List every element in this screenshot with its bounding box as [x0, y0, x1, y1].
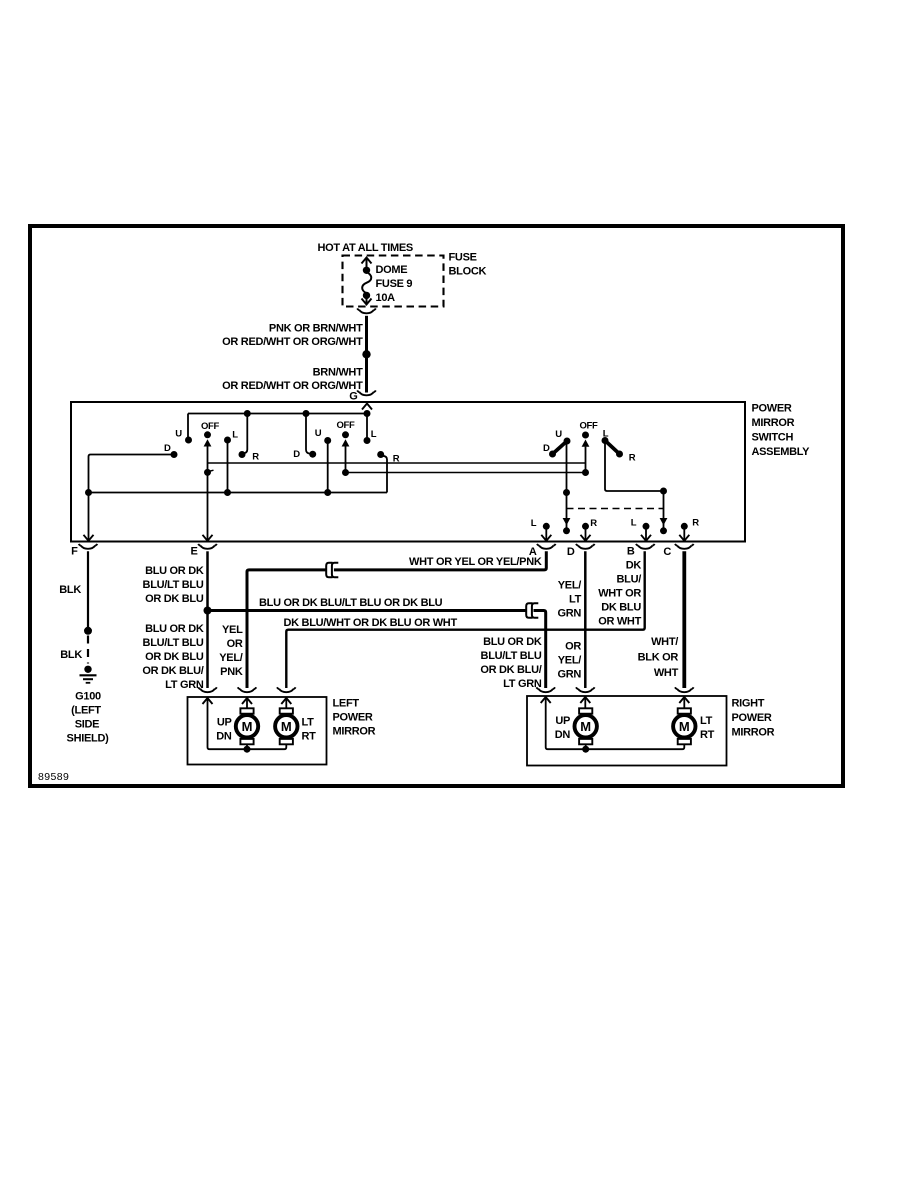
svg-text:OR: OR: [565, 641, 581, 653]
svg-text:RT: RT: [302, 730, 317, 742]
fuse F9 bottom terminal: [363, 292, 370, 299]
svg-text:OR DK BLU/: OR DK BLU/: [142, 665, 203, 677]
selector OFF contact: [582, 432, 589, 439]
wire F BLK dashed: [87, 636, 89, 664]
svg-text:GRN: GRN: [557, 608, 581, 620]
contact R stem to C: [683, 526, 685, 540]
svg-text:MIRROR: MIRROR: [333, 726, 376, 738]
right mirror entry arrow up/dn: [580, 697, 590, 703]
selector lever L-R: [605, 441, 620, 455]
left mirror lt/rt motor stem top: [285, 698, 287, 709]
svg-text:SWITCH: SWITCH: [752, 431, 794, 443]
wire switch1 L to bottom bus: [227, 440, 229, 493]
left mirror entry arrow lt/rt: [281, 698, 291, 704]
right mirror entry cup up/dn: [578, 689, 592, 692]
svg-text:OFF: OFF: [201, 421, 220, 432]
svg-text:OR WHT: OR WHT: [598, 616, 641, 628]
selector D contact: [549, 451, 556, 458]
svg-text:M: M: [281, 719, 292, 734]
switch1 wiper junction: [204, 469, 211, 476]
inline coupler wire2: [526, 603, 532, 618]
left mirror common wire: [208, 698, 287, 749]
svg-text:BLU/: BLU/: [617, 574, 642, 586]
svg-text:L: L: [232, 429, 238, 440]
switch1 U contact: [185, 437, 192, 444]
svg-text:YEL/: YEL/: [219, 652, 242, 664]
svg-text:GRN: GRN: [557, 669, 581, 681]
motor M3 right mirror up/dn: [579, 708, 592, 713]
svg-text:OR RED/WHT OR ORG/WHT: OR RED/WHT OR ORG/WHT: [222, 336, 363, 348]
switch2 L contact: [364, 437, 371, 444]
left mirror entry arrow common: [203, 698, 213, 704]
selector R contact: [616, 451, 623, 458]
connector F arrow: [84, 535, 94, 541]
left mirror entry cup up/dn: [240, 689, 254, 692]
svg-text:BLU/LT BLU: BLU/LT BLU: [143, 579, 204, 591]
wire battery feed upper PNK: [365, 316, 368, 352]
svg-text:M: M: [580, 719, 591, 734]
contact L (conn B): [643, 523, 650, 530]
right mirror up/dn motor stem bottom: [585, 745, 587, 750]
svg-text:BLU/LT BLU: BLU/LT BLU: [143, 637, 204, 649]
junction bottom bus at U2: [324, 489, 331, 496]
svg-text:OR DK BLU: OR DK BLU: [145, 593, 204, 605]
junction on top bus at D2: [303, 410, 310, 417]
svg-text:L: L: [371, 429, 377, 440]
svg-text:OFF: OFF: [336, 420, 355, 431]
outer border frame: [30, 226, 843, 786]
svg-text:F: F: [71, 546, 78, 558]
switch1 wiper wire to connector E: [207, 446, 209, 540]
left mirror entry cup common: [200, 689, 214, 692]
fuse F9 lower wire: [366, 295, 368, 303]
wire2 run right: [208, 609, 527, 612]
wire internal top bus: [188, 413, 367, 415]
svg-text:FUSE 9: FUSE 9: [376, 278, 413, 290]
fuse block dashed box: [343, 256, 444, 307]
svg-text:MIRROR: MIRROR: [752, 417, 795, 429]
svg-text:FUSE: FUSE: [449, 252, 477, 264]
right mirror common junction: [582, 746, 589, 753]
right mirror up/dn motor stem top: [584, 697, 586, 709]
fuse F9 element: [362, 272, 371, 293]
splice junction: [362, 350, 370, 358]
fuse output connector cup: [359, 310, 373, 313]
svg-text:D: D: [293, 449, 300, 460]
svg-text:POWER: POWER: [732, 712, 772, 724]
svg-text:BLU OR DK BLU/LT BLU OR DK BLU: BLU OR DK BLU/LT BLU OR DK BLU: [259, 597, 443, 609]
svg-text:R: R: [393, 454, 400, 465]
selector OFF wire: [585, 447, 587, 473]
selector wiper arrow left: [563, 518, 571, 525]
wire top bus to switch2 L: [366, 414, 368, 441]
selector wiper contact left: [563, 527, 570, 534]
svg-text:POWER: POWER: [752, 402, 792, 414]
motor M2 left mirror lt/rt: [280, 708, 293, 713]
junction on top bus at G/L2: [364, 410, 371, 417]
svg-text:UP: UP: [555, 715, 570, 727]
selector U contact: [564, 438, 571, 445]
junction selector right column: [660, 488, 667, 495]
wire A stem and run left: [334, 551, 546, 570]
svg-text:L: L: [531, 518, 537, 529]
svg-text:10A: 10A: [376, 292, 396, 304]
wire top bus to switch2 D: [306, 414, 310, 454]
right mirror entry cup lt/rt: [677, 689, 691, 692]
svg-text:BLK: BLK: [60, 649, 82, 661]
svg-text:YEL/: YEL/: [558, 655, 581, 667]
svg-text:YEL: YEL: [222, 624, 243, 636]
wire D YEL/LT GRN: [584, 551, 587, 688]
svg-text:D: D: [543, 443, 550, 454]
svg-text:BLK: BLK: [59, 584, 81, 596]
svg-text:BLU OR DK: BLU OR DK: [145, 565, 204, 577]
right mirror entry arrow lt/rt: [679, 697, 689, 703]
node G entry arrow: [362, 404, 372, 410]
power mirror switch assembly box: [71, 402, 745, 542]
svg-text:L: L: [631, 517, 637, 528]
selector wiper stem right: [663, 518, 665, 528]
contact R (conn C): [681, 523, 688, 530]
svg-text:R: R: [629, 452, 636, 463]
right mirror entry arrow common: [541, 697, 551, 703]
svg-text:DN: DN: [216, 730, 232, 742]
motor M1 left mirror up/dn: [240, 708, 253, 713]
svg-text:M: M: [242, 719, 253, 734]
switch1 L contact: [224, 437, 231, 444]
switch1 wiper arrow: [204, 439, 212, 446]
right power mirror box: [527, 696, 727, 766]
contact R (conn D): [582, 523, 589, 530]
svg-text:B: B: [627, 545, 635, 557]
wire mid bus upper: [208, 462, 586, 464]
selector lever D-U: [553, 441, 568, 454]
wire E BLU upper: [206, 551, 209, 610]
connector pin C cup: [677, 546, 691, 549]
svg-text:D: D: [164, 443, 171, 454]
svg-text:SIDE: SIDE: [75, 719, 99, 731]
svg-text:RIGHT: RIGHT: [732, 698, 765, 710]
svg-text:M: M: [679, 719, 690, 734]
fuse F9 up arrow: [362, 258, 372, 264]
svg-text:OFF: OFF: [579, 420, 598, 431]
svg-text:U: U: [175, 429, 182, 440]
selector wiper stem left: [566, 518, 568, 528]
switch1 riser to U contact: [187, 414, 189, 438]
svg-text:LT GRN: LT GRN: [165, 679, 204, 691]
junction on top bus at R1: [244, 410, 251, 417]
svg-text:U: U: [555, 429, 562, 440]
svg-text:G100: G100: [75, 691, 101, 703]
junction selector column: [563, 489, 570, 496]
svg-text:89589: 89589: [38, 771, 69, 783]
left mirror entry arrow up/dn: [242, 698, 252, 704]
svg-text:ASSEMBLY: ASSEMBLY: [752, 446, 811, 458]
wire battery feed lower BRN/WHT: [365, 354, 368, 392]
connector pin B cup: [638, 546, 652, 549]
junction F column bottom bus: [85, 489, 92, 496]
svg-text:LEFT: LEFT: [333, 698, 360, 710]
svg-text:DK: DK: [626, 560, 642, 572]
svg-text:YEL/: YEL/: [558, 580, 581, 592]
svg-text:MIRROR: MIRROR: [732, 727, 775, 739]
svg-text:WHT: WHT: [654, 667, 679, 679]
svg-text:OR RED/WHT OR ORG/WHT: OR RED/WHT OR ORG/WHT: [222, 380, 363, 392]
svg-text:OR DK BLU: OR DK BLU: [145, 651, 204, 663]
svg-text:(LEFT: (LEFT: [71, 705, 101, 717]
right mirror lt/rt motor stem top: [683, 697, 685, 709]
switch1 OFF contact: [204, 431, 211, 438]
inline coupler wire1: [326, 563, 332, 578]
connector pin G cup: [359, 392, 373, 395]
svg-text:BLU OR DK: BLU OR DK: [483, 636, 542, 648]
junction bottom bus at L1: [224, 489, 231, 496]
svg-text:LT: LT: [569, 594, 582, 606]
svg-text:LT: LT: [302, 716, 315, 728]
wire1 left segment down to left mirror: [247, 570, 326, 688]
svg-text:PNK: PNK: [220, 666, 243, 678]
ground splice: [84, 627, 92, 635]
svg-text:BRN/WHT: BRN/WHT: [313, 367, 363, 379]
switch2 wiper arrow: [342, 439, 350, 446]
svg-text:C: C: [663, 546, 671, 558]
switch2 wiper wire: [345, 446, 347, 472]
wire switch1 D to connector F: [89, 455, 172, 541]
svg-text:DOME: DOME: [376, 264, 408, 276]
selector wiper arrow right: [660, 518, 668, 525]
wire switch2 R to bottom bus end: [383, 456, 388, 493]
wire switch1 R to top bus: [244, 414, 248, 454]
fuse F9 top terminal: [363, 267, 370, 274]
selector OFF wiper arrow: [582, 440, 590, 447]
svg-text:WHT/: WHT/: [651, 636, 678, 648]
svg-text:D: D: [567, 546, 575, 558]
wire3 B stem run left and down: [286, 551, 644, 688]
connector E arrow: [203, 535, 213, 541]
svg-text:BLK OR: BLK OR: [638, 652, 679, 664]
svg-text:G: G: [349, 391, 357, 403]
svg-text:DN: DN: [555, 729, 571, 741]
wire C WHT/BLK: [682, 551, 686, 688]
fuse F9 wire: [366, 258, 368, 269]
svg-text:WHT OR YEL OR YEL/PNK: WHT OR YEL OR YEL/PNK: [409, 556, 542, 568]
fuse F9 down arrow: [362, 299, 372, 305]
svg-text:WHT OR: WHT OR: [598, 588, 641, 600]
svg-text:OR DK BLU/: OR DK BLU/: [480, 664, 541, 676]
selector L contact: [602, 437, 609, 444]
svg-text:R: R: [252, 451, 259, 462]
wire mid bus lower: [346, 472, 586, 474]
right mirror common wire: [546, 697, 685, 749]
svg-text:R: R: [590, 518, 597, 529]
contact L stem to A: [545, 526, 547, 540]
left power mirror box: [188, 697, 327, 765]
switch2 R contact: [377, 451, 384, 458]
svg-text:PNK OR BRN/WHT: PNK OR BRN/WHT: [269, 323, 363, 335]
wire2 down to right mirror: [534, 611, 546, 689]
svg-text:DK BLU: DK BLU: [601, 602, 641, 614]
switch2 U contact: [324, 437, 331, 444]
switch2 wiper junction: [342, 469, 349, 476]
wire selector L down and right: [605, 441, 664, 492]
svg-text:RT: RT: [700, 729, 715, 741]
svg-text:POWER: POWER: [333, 712, 373, 724]
svg-text:R: R: [692, 517, 699, 528]
connector pin D cup: [578, 546, 592, 549]
left mirror up/dn motor stem bottom: [246, 745, 248, 750]
svg-text:OR: OR: [227, 638, 243, 650]
wire bottom bus: [89, 492, 388, 494]
contact L stem to B: [645, 526, 647, 540]
svg-text:HOT AT ALL TIMES: HOT AT ALL TIMES: [318, 242, 413, 254]
selector OFF junction: [582, 469, 589, 476]
svg-text:SHIELD): SHIELD): [67, 733, 110, 745]
svg-text:DK BLU/WHT OR DK BLU OR WHT: DK BLU/WHT OR DK BLU OR WHT: [284, 617, 458, 629]
motor M4 right mirror lt/rt: [678, 708, 691, 713]
svg-text:LT: LT: [700, 715, 713, 727]
splice E junction: [204, 607, 212, 615]
switch1 R contact: [239, 451, 246, 458]
wire selector right column: [663, 491, 665, 518]
selector gang dashed link: [567, 508, 664, 510]
connector pin A cup: [539, 546, 553, 549]
contact R stem to D: [585, 526, 587, 540]
ground G100 symbol: [84, 666, 91, 673]
switch2 D contact: [309, 451, 316, 458]
wire F BLK upper: [87, 551, 89, 631]
switch1 D contact: [171, 451, 178, 458]
wire E BLU lower: [206, 611, 209, 689]
switch2 OFF contact: [342, 431, 349, 438]
connector pin F cup: [81, 546, 95, 549]
right mirror entry cup common: [539, 689, 553, 692]
svg-text:BLU/LT BLU: BLU/LT BLU: [481, 650, 542, 662]
connector pin E cup: [200, 546, 214, 549]
svg-text:BLU OR DK: BLU OR DK: [145, 623, 204, 635]
svg-text:BLOCK: BLOCK: [449, 266, 487, 278]
left mirror entry cup lt/rt: [279, 689, 293, 692]
contact L (conn A): [543, 523, 550, 530]
svg-text:E: E: [190, 546, 197, 558]
left mirror common junction: [244, 746, 251, 753]
left mirror up/dn motor stem top: [246, 698, 248, 709]
selector wiper contact right: [660, 527, 667, 534]
svg-text:UP: UP: [217, 716, 232, 728]
wire selector U down: [566, 441, 568, 518]
wire switch2 U to bottom bus: [327, 441, 329, 493]
svg-text:U: U: [315, 428, 322, 439]
